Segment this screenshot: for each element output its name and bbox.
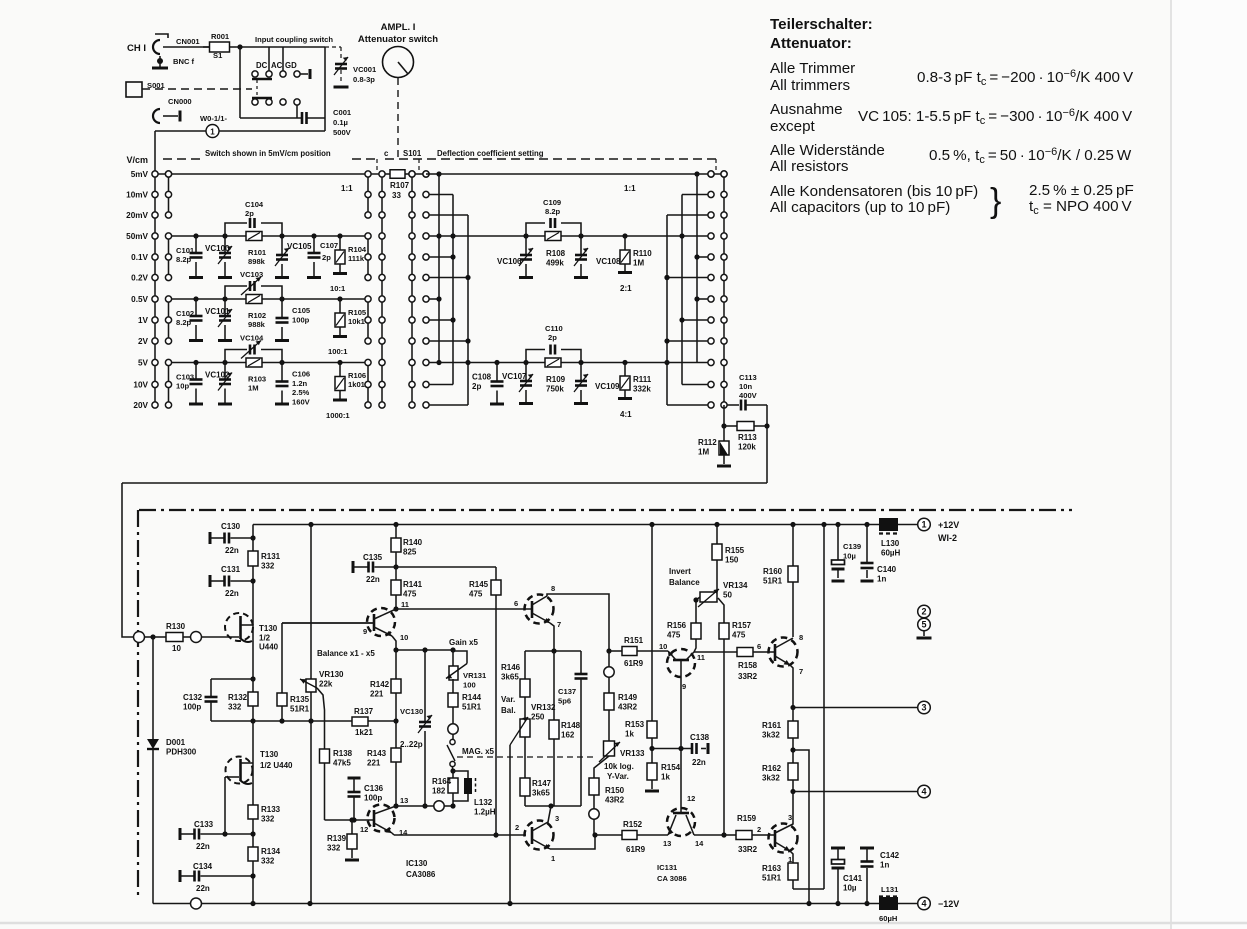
svg-text:V/cm: V/cm xyxy=(126,155,148,165)
capacitor C134 22n xyxy=(179,870,182,882)
terminal 1 +12V xyxy=(918,518,931,531)
wire down to 5mV row xyxy=(154,131,156,174)
svg-text:162: 162 xyxy=(561,730,575,739)
resistor R149 43R2 xyxy=(608,677,610,693)
svg-text:R139: R139 xyxy=(327,834,347,843)
svg-text:R146: R146 xyxy=(501,663,521,672)
svg-text:C136: C136 xyxy=(364,784,384,793)
page fold lines xyxy=(1170,0,1172,929)
svg-text:2:1: 2:1 xyxy=(620,284,632,293)
svg-text:1:1: 1:1 xyxy=(341,184,353,193)
svg-text:4:1: 4:1 xyxy=(620,410,632,419)
svg-text:R157: R157 xyxy=(732,621,752,630)
svg-text:8.2p: 8.2p xyxy=(176,255,192,264)
+12V rail xyxy=(253,524,879,526)
resistor R111 332k xyxy=(624,363,626,377)
capacitor C133 22n xyxy=(179,828,182,840)
dashed MAG link to VR133 xyxy=(457,756,597,758)
resistor R001 51 xyxy=(203,46,210,48)
resistor R108 499k xyxy=(545,232,561,241)
svg-text:3: 3 xyxy=(921,703,926,713)
svg-text:8.2p: 8.2p xyxy=(176,318,192,327)
svg-text:Gain x5: Gain x5 xyxy=(449,638,478,647)
resistor R135 51R1 xyxy=(281,623,283,693)
svg-text:IC131: IC131 xyxy=(657,863,678,872)
svg-text:c: c xyxy=(384,149,389,158)
resistor R164 182 xyxy=(452,771,454,778)
svg-text:C142: C142 xyxy=(880,851,900,860)
svg-text:C138: C138 xyxy=(690,733,710,742)
svg-text:12: 12 xyxy=(687,794,695,803)
svg-text:51R1: 51R1 xyxy=(462,702,482,711)
svg-text:1: 1 xyxy=(210,128,215,137)
transistor IC130 pins 9 11 10 xyxy=(367,608,395,636)
resistor R146 3k65 xyxy=(524,651,526,679)
svg-text:All capacitors (up to 10 pF): All capacitors (up to 10 pF) xyxy=(770,199,950,216)
svg-text:CH I: CH I xyxy=(127,43,146,54)
svg-text:33R2: 33R2 xyxy=(738,845,758,854)
svg-text:1:1: 1:1 xyxy=(624,184,636,193)
svg-text:10V: 10V xyxy=(133,381,148,390)
svg-text:8: 8 xyxy=(551,584,555,593)
resistor R148 162 xyxy=(553,651,555,720)
svg-text:AMPL. I: AMPL. I xyxy=(381,22,416,33)
svg-text:22n: 22n xyxy=(225,589,239,598)
attenuator switch knob xyxy=(383,47,414,78)
svg-text:10µ: 10µ xyxy=(843,551,856,560)
resistor R150 43R2 xyxy=(594,756,609,778)
potentiometer VR131 100 xyxy=(452,650,454,666)
svg-text:R108: R108 xyxy=(546,249,566,258)
svg-text:All resistors: All resistors xyxy=(770,158,849,175)
svg-text:−12V: −12V xyxy=(938,899,959,909)
coupling switch frame xyxy=(239,47,241,118)
svg-text:C137: C137 xyxy=(558,687,576,696)
switch contact upper right with stub xyxy=(294,71,300,77)
svg-text:1k21: 1k21 xyxy=(355,728,373,737)
svg-text:1n: 1n xyxy=(880,860,889,869)
svg-text:2p: 2p xyxy=(472,382,481,391)
wire attenuator row R101 xyxy=(172,235,365,237)
bank1 right rail outer xyxy=(381,174,383,405)
svg-text:10n: 10n xyxy=(739,382,752,391)
svg-text:Deflection coefficient setting: Deflection coefficient setting xyxy=(437,149,544,158)
svg-text:VR133: VR133 xyxy=(620,749,645,758)
svg-text:R158: R158 xyxy=(738,661,758,670)
transistor IC131 pins 12 13 14 xyxy=(667,808,695,836)
svg-text:0.8-3 pF tc = −200 · 10−6/K 40: 0.8-3 pF tc = −200 · 10−6/K 400 V xyxy=(917,68,1134,88)
svg-text:C130: C130 xyxy=(221,522,241,531)
emitter network bottom bar xyxy=(525,805,581,807)
svg-text:L130: L130 xyxy=(881,539,900,548)
svg-text:Alle Kondensatoren (bis 10 pF): Alle Kondensatoren (bis 10 pF) xyxy=(770,183,978,200)
svg-text:5mV: 5mV xyxy=(131,170,149,179)
svg-text:C135: C135 xyxy=(363,553,383,562)
svg-text:C103: C103 xyxy=(176,373,194,382)
svg-text:VC108: VC108 xyxy=(596,257,621,266)
wire 5mV row main xyxy=(158,173,383,175)
svg-text:R141: R141 xyxy=(403,580,423,589)
svg-text:VC105: VC105 xyxy=(287,242,312,251)
svg-text:0.2V: 0.2V xyxy=(131,274,148,283)
wire VR134 left to R156 xyxy=(696,597,700,623)
svg-text:250: 250 xyxy=(531,712,545,721)
svg-text:475: 475 xyxy=(667,630,681,639)
svg-text:22n: 22n xyxy=(225,546,239,555)
svg-text:R144: R144 xyxy=(462,693,482,702)
wire bank2 cell row xyxy=(429,362,708,364)
svg-text:C001: C001 xyxy=(333,108,352,117)
svg-text:100:1: 100:1 xyxy=(328,347,348,356)
svg-text:L132: L132 xyxy=(474,798,493,807)
svg-text:Bal.: Bal. xyxy=(501,706,516,715)
svg-text:R137: R137 xyxy=(354,707,374,716)
svg-text:R161: R161 xyxy=(762,721,782,730)
svg-text:Alle Widerstände: Alle Widerstände xyxy=(770,142,885,159)
svg-text:332: 332 xyxy=(327,843,341,852)
svg-text:IC130: IC130 xyxy=(406,859,428,868)
svg-text:221: 221 xyxy=(367,758,381,767)
trimmer VC130 2..22p xyxy=(424,650,426,722)
svg-text:988k: 988k xyxy=(248,320,266,329)
svg-text:R133: R133 xyxy=(261,805,281,814)
capacitor C135 22n xyxy=(352,561,355,573)
potentiometer VR134 50 xyxy=(700,592,717,602)
svg-text:WI-2: WI-2 xyxy=(938,533,957,543)
crossbar wires bank2 left xyxy=(438,174,440,363)
svg-text:20V: 20V xyxy=(133,401,148,410)
svg-text:C133: C133 xyxy=(194,820,214,829)
svg-text:VC106: VC106 xyxy=(497,257,522,266)
svg-text:51R1: 51R1 xyxy=(290,704,310,713)
svg-text:1: 1 xyxy=(921,520,926,530)
transistor IC131 pins 6 8 7 xyxy=(525,595,554,624)
svg-text:2: 2 xyxy=(921,607,926,617)
svg-text:3k65: 3k65 xyxy=(532,788,550,797)
svg-text:VC 105: 1-5.5 pF tc = −300 · 1: VC 105: 1-5.5 pF tc = −300 · 10−6/K 400 … xyxy=(858,107,1133,127)
svg-text:1k01: 1k01 xyxy=(348,380,366,389)
svg-text:R134: R134 xyxy=(261,847,281,856)
svg-text:+12V: +12V xyxy=(938,520,959,530)
svg-text:10: 10 xyxy=(172,644,181,653)
svg-text:0.8-3p: 0.8-3p xyxy=(353,75,375,84)
resistor R101 898k xyxy=(246,232,262,241)
svg-text:475: 475 xyxy=(732,630,746,639)
diode D001 PDH300 xyxy=(152,637,154,739)
wire output bottom jog xyxy=(793,888,824,890)
resistor R137 1k21 xyxy=(311,720,352,722)
capacitor C136 100p xyxy=(348,777,361,780)
svg-text:33: 33 xyxy=(392,191,401,200)
capacitor C001 0.1u 500V xyxy=(301,112,304,124)
wire collector node to R158 xyxy=(694,651,737,653)
svg-text:R142: R142 xyxy=(370,680,390,689)
svg-text:150: 150 xyxy=(725,555,739,564)
svg-text:1/2: 1/2 xyxy=(259,633,271,642)
svg-text:1: 1 xyxy=(551,854,555,863)
switch MAG x5 xyxy=(452,734,454,739)
svg-text:R155: R155 xyxy=(725,546,745,555)
resistor R138 47k5 xyxy=(320,749,330,763)
divider resistor tap 10:1 xyxy=(339,236,341,250)
svg-text:T130: T130 xyxy=(260,750,279,759)
wire attenuator row R102 xyxy=(172,298,365,300)
wire 5mV row to bank2 xyxy=(412,173,426,175)
svg-text:C107: C107 xyxy=(320,241,338,250)
svg-text:R156: R156 xyxy=(667,621,687,630)
resistor R143 221 xyxy=(395,721,397,748)
svg-text:C105: C105 xyxy=(292,306,311,315)
svg-text:8: 8 xyxy=(799,633,803,642)
svg-text:51R1: 51R1 xyxy=(763,576,783,585)
resistor R134 332 xyxy=(248,847,258,861)
svg-text:43R2: 43R2 xyxy=(618,702,638,711)
wire BNC to R001 xyxy=(163,46,211,48)
svg-text:R101: R101 xyxy=(248,248,267,257)
svg-text:T130: T130 xyxy=(259,624,278,633)
svg-text:C132: C132 xyxy=(183,693,203,702)
resistor R160 51R1 xyxy=(792,525,794,567)
svg-text:400V: 400V xyxy=(739,391,758,400)
svg-text:VC109: VC109 xyxy=(595,382,620,391)
svg-text:1V: 1V xyxy=(138,316,149,325)
svg-text:2: 2 xyxy=(757,825,761,834)
transistor output pins 2 3 1 xyxy=(769,824,798,853)
emitter network top bar xyxy=(525,650,581,652)
bypass capacitor VC104 xyxy=(225,350,247,363)
dashed switch frame line xyxy=(163,158,203,160)
svg-text:1k: 1k xyxy=(625,729,634,738)
connector CN000 xyxy=(153,109,160,123)
bank2 right crossbars xyxy=(666,215,668,405)
svg-text:R106: R106 xyxy=(348,371,366,380)
potentiometer VR133 10k log Y-Var xyxy=(604,741,615,756)
svg-text:22n: 22n xyxy=(692,758,706,767)
transistor IC130 pins 12 13 14 xyxy=(368,805,395,832)
bank2 left contacts xyxy=(423,171,429,177)
svg-text:C109: C109 xyxy=(543,198,561,207)
svg-text:W0-1/1-: W0-1/1- xyxy=(200,114,227,123)
svg-text:S101: S101 xyxy=(403,149,422,158)
capacitor C107 2p xyxy=(311,233,316,238)
resistor R110 1M xyxy=(624,236,626,250)
trimmer VC101 xyxy=(224,299,226,316)
svg-text:5p6: 5p6 xyxy=(558,696,571,705)
svg-text:R159: R159 xyxy=(737,814,757,823)
divider resistor tap 100:1 xyxy=(339,299,341,313)
dash-dot shield border top xyxy=(139,509,1072,511)
svg-text:100p: 100p xyxy=(364,793,382,802)
svg-text:CA 3086: CA 3086 xyxy=(657,874,687,883)
resistor R147 3k65 xyxy=(520,778,530,796)
wires x253 lower chain xyxy=(252,721,254,805)
resistor R133 332 xyxy=(248,805,258,819)
svg-text:DC: DC xyxy=(256,61,268,70)
FET T130 upper half U440 xyxy=(225,613,253,641)
svg-text:C139: C139 xyxy=(843,542,861,551)
socket S001 xyxy=(126,82,142,97)
svg-text:3k32: 3k32 xyxy=(762,730,780,739)
svg-text:60µH: 60µH xyxy=(879,914,897,923)
svg-text:3: 3 xyxy=(555,814,559,823)
svg-text:1/2 U440: 1/2 U440 xyxy=(260,761,293,770)
wire FET drain to IC base xyxy=(282,622,374,624)
svg-text:2.5 % ± 0.25 pF: 2.5 % ± 0.25 pF xyxy=(1029,182,1134,199)
wire attenuator output to amplifier input xyxy=(766,426,768,483)
svg-text:R160: R160 xyxy=(763,567,783,576)
svg-text:5: 5 xyxy=(921,620,926,630)
svg-text:332k: 332k xyxy=(633,384,651,393)
svg-text:1000:1: 1000:1 xyxy=(326,411,350,420)
svg-text:R001: R001 xyxy=(211,32,230,41)
svg-text:8.2p: 8.2p xyxy=(545,207,561,216)
svg-text:0.5 %, tc = 50 · 10−6/K / 0.25: 0.5 %, tc = 50 · 10−6/K / 0.25 W xyxy=(929,146,1132,166)
svg-text:R163: R163 xyxy=(762,864,782,873)
svg-text:VR132: VR132 xyxy=(531,703,556,712)
trimmer VC100 xyxy=(224,236,226,253)
svg-text:VC107: VC107 xyxy=(502,372,527,381)
capacitor C102 8.2p xyxy=(195,299,197,316)
svg-text:332: 332 xyxy=(228,702,242,711)
svg-text:R135: R135 xyxy=(290,695,310,704)
svg-text:51R1: 51R1 xyxy=(762,873,782,882)
svg-text:VC103: VC103 xyxy=(240,270,263,279)
svg-text:R112: R112 xyxy=(698,438,717,447)
svg-text:10: 10 xyxy=(400,633,408,642)
svg-text:C134: C134 xyxy=(193,862,213,871)
svg-text:R147: R147 xyxy=(532,779,552,788)
svg-text:1.2µH: 1.2µH xyxy=(474,807,496,816)
wire C135 node to R145 xyxy=(396,566,496,568)
bank2 left rail inner xyxy=(411,174,413,405)
svg-text:C110: C110 xyxy=(545,324,563,333)
svg-text:R107: R107 xyxy=(390,181,410,190)
svg-text:825: 825 xyxy=(403,547,417,556)
svg-text:7: 7 xyxy=(557,620,561,629)
svg-text:6: 6 xyxy=(757,642,761,651)
svg-text:CN001: CN001 xyxy=(176,37,200,46)
resistor R155 150 xyxy=(716,525,718,545)
svg-text:2: 2 xyxy=(515,823,519,832)
svg-text:2p: 2p xyxy=(322,253,331,262)
bypass capacitor C109 8.2p xyxy=(526,223,545,236)
svg-text:499k: 499k xyxy=(546,258,564,267)
svg-text:750k: 750k xyxy=(546,384,564,393)
bank2 right contacts xyxy=(708,171,714,177)
svg-text:C106: C106 xyxy=(292,370,310,379)
wire 1:1 row across xyxy=(439,173,697,175)
transistor IC131 pins 10 11 9 xyxy=(667,649,695,677)
svg-text:Alle Trimmer: Alle Trimmer xyxy=(770,60,855,77)
wire emitter node xyxy=(396,649,453,651)
svg-text:332: 332 xyxy=(261,561,275,570)
svg-text:C101: C101 xyxy=(176,246,195,255)
resistor R107 33 xyxy=(383,173,390,175)
svg-text:3: 3 xyxy=(788,813,792,822)
svg-text:R149: R149 xyxy=(618,693,638,702)
svg-text:2..22p: 2..22p xyxy=(400,740,423,749)
svg-text:All trimmers: All trimmers xyxy=(770,77,851,94)
svg-text:Attenuator switch: Attenuator switch xyxy=(358,34,438,45)
shunt C105 100p xyxy=(281,299,283,318)
svg-text:Input coupling switch: Input coupling switch xyxy=(255,35,333,44)
capacitor C142 1n xyxy=(860,847,874,850)
svg-text:4: 4 xyxy=(921,787,926,797)
inductor L131 60uH xyxy=(879,897,898,910)
capacitor C139 10u xyxy=(837,525,839,561)
svg-text:47k5: 47k5 xyxy=(333,758,351,767)
capacitor C140 1n xyxy=(866,525,868,564)
shunt VC105 xyxy=(281,236,283,255)
bypass capacitor VC103 xyxy=(225,286,247,299)
svg-text:Var.: Var. xyxy=(501,695,515,704)
svg-text:332: 332 xyxy=(261,814,275,823)
svg-text:C113: C113 xyxy=(739,373,757,382)
svg-text:R111: R111 xyxy=(633,375,652,384)
capacitor C101 8.2p xyxy=(195,236,197,253)
supply chain x253 wires xyxy=(252,525,254,680)
svg-text:R130: R130 xyxy=(166,622,186,631)
svg-text:22k: 22k xyxy=(319,679,333,688)
trimmer VC001 0.8-3p xyxy=(325,46,341,48)
svg-text:1M: 1M xyxy=(248,384,259,393)
svg-text:14: 14 xyxy=(695,839,704,848)
svg-text:3k32: 3k32 xyxy=(762,773,780,782)
svg-text:332: 332 xyxy=(261,856,275,865)
trimmer VC107 xyxy=(525,363,527,382)
svg-text:898k: 898k xyxy=(248,257,266,266)
svg-text:Y-Var.: Y-Var. xyxy=(607,772,629,781)
svg-text:1.2n: 1.2n xyxy=(292,379,308,388)
svg-text:Balance x1 - x5: Balance x1 - x5 xyxy=(317,649,375,658)
shunt C106 1.2n|2.5%|160V xyxy=(281,363,283,382)
capacitor C103 10p xyxy=(195,363,197,380)
capacitor C141 10u xyxy=(831,847,845,850)
bypass capacitor C104 2p xyxy=(225,223,247,236)
svg-text:CA3086: CA3086 xyxy=(406,870,436,879)
svg-text:1M: 1M xyxy=(633,258,644,267)
svg-text:R131: R131 xyxy=(261,552,281,561)
resistor R113 120k xyxy=(724,425,737,427)
resistor R152 61R9 xyxy=(595,834,622,836)
svg-text:R138: R138 xyxy=(333,749,353,758)
svg-text:VR134: VR134 xyxy=(723,581,748,590)
svg-text:R152: R152 xyxy=(623,820,643,829)
svg-text:R113: R113 xyxy=(738,433,757,442)
resistor R162 3k32 xyxy=(792,750,794,763)
svg-text:9: 9 xyxy=(363,627,367,636)
terminal 4 -12V xyxy=(918,897,931,910)
svg-text:221: 221 xyxy=(370,689,384,698)
resistor R158 33R2 xyxy=(737,648,753,657)
resistor R103 1M xyxy=(246,358,262,367)
svg-text:13: 13 xyxy=(663,839,671,848)
svg-text:9: 9 xyxy=(682,682,686,691)
svg-text:VR130: VR130 xyxy=(319,670,344,679)
wire pin13 line xyxy=(396,805,434,807)
resistor R140 825 xyxy=(395,525,397,539)
svg-text:475: 475 xyxy=(469,589,483,598)
wire VR132 wiper to rail xyxy=(509,745,511,904)
svg-text:CN000: CN000 xyxy=(168,97,192,106)
trimmer VC108 xyxy=(580,236,582,255)
svg-text:MAG. x5: MAG. x5 xyxy=(462,747,495,756)
label BNC f xyxy=(157,58,163,64)
svg-text:10µ: 10µ xyxy=(843,883,857,892)
resistor R102 988k xyxy=(246,295,262,304)
svg-text:Invert: Invert xyxy=(669,567,691,576)
trimmer VC106 xyxy=(525,236,527,255)
